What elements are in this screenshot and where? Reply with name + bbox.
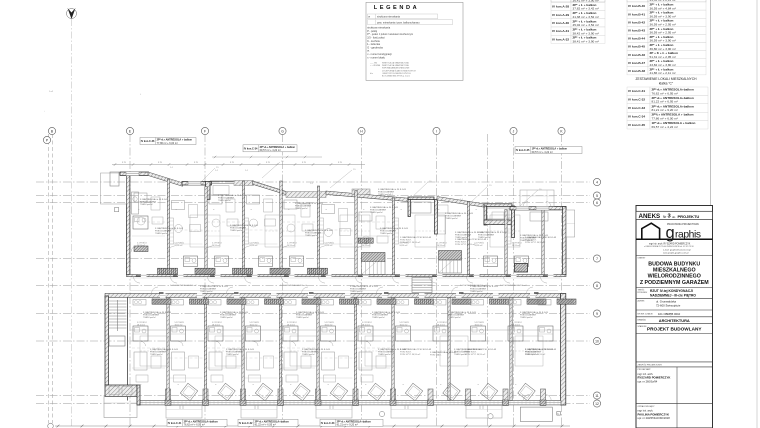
svg-text:IV kon.B-46: IV kon.B-46 [628,53,645,57]
svg-text:G - garderoba: G - garderoba [367,46,383,49]
svg-text:Z PODZIEMNYM GARAŻEM: Z PODZIEMNYM GARAŻEM [640,279,709,286]
svg-text:1.4: 1.4 [245,170,248,172]
svg-text:IV kon.B-41: IV kon.B-41 [628,12,645,16]
svg-text:2%: 2% [216,167,219,169]
svg-text:BRANŻA: BRANŻA [638,319,647,322]
svg-text:IV kon.A-32: IV kon.A-32 [552,37,569,41]
svg-text:18,11 m2: 18,11 m2 [287,324,295,326]
svg-text:37,82 m² + 3,42 m²: 37,82 m² + 3,42 m² [573,7,599,11]
svg-text:TRAWI pod/al: TRAWI pod/al [296,316,309,319]
svg-text:18,11 m2: 18,11 m2 [400,324,408,326]
svg-text:18,11 m2: 18,11 m2 [437,324,445,326]
svg-text:I NIEKTÓRYCH NIEWIDOCZNYCH: I NIEKTÓRYCH NIEWIDOCZNYCH [382,72,411,75]
svg-text:1.4: 1.4 [390,194,393,196]
svg-text:LEGENDA: LEGENDA [374,5,420,11]
svg-text:24,53 m2: 24,53 m2 [212,245,220,247]
svg-text:ul. BIELKOWSKA 29 72-600 ŚWINO: ul. BIELKOWSKA 29 72-600 ŚWINOUJŚCIE tel… [644,245,694,248]
svg-text:g: g [666,224,675,242]
svg-text:WENTYLACJA GRAWITACYJNA: WENTYLACJA GRAWITACYJNA [382,64,409,67]
svg-text:OBIEKT: OBIEKT [638,258,647,260]
svg-text:77,86 m² + 6,00 m²: 77,86 m² + 6,00 m² [157,142,178,145]
svg-text:ZESTAWIENIE LOKALI MIESZKALN: ZESTAWIENIE LOKALI MIESZKALNYCH [635,77,697,81]
svg-text:24,53 m2: 24,53 m2 [362,245,370,247]
svg-text:1.1 ANTRESOLA LIT. W. 36 S.1-0: 1.1 ANTRESOLA LIT. W. 36 S.1-03 [400,348,432,351]
svg-text:24,53 m2: 24,53 m2 [325,245,333,247]
svg-text:81,22 m² + 6,95 m²: 81,22 m² + 6,95 m² [255,424,276,427]
svg-text:1.1 ANTRESOLA LIT. W. 36 S.1-0: 1.1 ANTRESOLA LIT. W. 36 S.1-03 [400,236,432,239]
svg-text:TRAWI pod/al: TRAWI pod/al [370,211,383,214]
svg-text:IV kon.C-36: IV kon.C-36 [141,140,155,143]
svg-text:2%: 2% [489,185,492,187]
svg-text:77,86 m² + 6,00 m²: 77,86 m² + 6,00 m² [652,117,678,121]
svg-text:raphis: raphis [675,230,701,241]
svg-text:24,53 m2: 24,53 m2 [475,245,483,247]
svg-text:5.02 KOMUNIKACJA 28.6 m2: 5.02 KOMUNIKACJA 28.6 m2 [170,284,197,287]
svg-text:18,11 m2: 18,11 m2 [175,324,183,326]
svg-text:POW. UŻYT. 36,59 m2: POW. UŻYT. 36,59 m2 [400,241,421,244]
svg-text:TRAWI pod/al: TRAWI pod/al [218,199,231,202]
svg-text:POW. UŻYT. 36,59 m2: POW. UŻYT. 36,59 m2 [525,353,546,356]
svg-text:NADZIEMNEJ - III-cie PIĘTRO: NADZIEMNEJ - III-cie PIĘTRO [650,294,696,298]
svg-text:TRAWI pod/al: TRAWI pod/al [470,290,483,293]
svg-text:IV kon.C-34: IV kon.C-34 [628,114,645,118]
svg-text:1.1 ANTRESOLA LIT. W. 36 S.1-0: 1.1 ANTRESOLA LIT. W. 36 S.1-03 [525,348,557,351]
svg-text:2%: 2% [539,189,542,191]
svg-text:BLOCZKAMI MULTIPOR gr. 5,5cm: BLOCZKAMI MULTIPOR gr. 5,5cm [382,75,410,78]
svg-text:9: 9 [596,312,598,316]
svg-text:41,86 m² + 2,11 m²: 41,86 m² + 2,11 m² [650,71,676,75]
svg-text:38,41 m² + 3,90 m²: 38,41 m² + 3,90 m² [573,40,599,44]
svg-text:1.1 ANTRESOLA LIT. W. 36 S.1-0: 1.1 ANTRESOLA LIT. W. 36 S.1-03 [465,348,497,351]
svg-text:F: F [204,129,206,133]
svg-text:TRAWI pod/al: TRAWI pod/al [445,217,458,220]
svg-text:TRAWI pod/al: TRAWI pod/al [520,316,533,319]
svg-text:18,11 m2: 18,11 m2 [475,324,483,326]
svg-text:24,53 m2: 24,53 m2 [287,245,295,247]
svg-text:76,62 m² + 6,95 m²: 76,62 m² + 6,95 m² [652,91,678,95]
svg-text:ANEKS: ANEKS [639,213,661,220]
svg-text:WIELORODZINNEGO: WIELORODZINNEGO [648,274,701,280]
svg-text:TRAWI pod/al: TRAWI pod/al [143,316,156,319]
svg-text:2%: 2% [353,169,356,171]
svg-text:struktura mieszkania: struktura mieszkania [377,16,401,19]
svg-text:pow. mieszkania i pow. balkonu: pow. mieszkania i pow. balkonu/tarasu [377,21,420,24]
svg-text:2%: 2% [429,181,432,183]
svg-text:ARCHITEKTURA: ARCHITEKTURA [659,318,690,323]
svg-text:TRAWI pod/al: TRAWI pod/al [448,316,461,319]
svg-text:IV kon.B-47: IV kon.B-47 [628,61,645,65]
svg-text:www.projekt-graphis.com.pl: www.projekt-graphis.com.pl [663,252,689,255]
svg-text:IV kon.C-34: IV kon.C-34 [244,147,258,150]
svg-text:24,53 m2: 24,53 m2 [175,245,183,247]
svg-text:5.02 KOMUNIKACJA 28.6 m2: 5.02 KOMUNIKACJA 28.6 m2 [280,284,307,287]
svg-text:18,11 m2: 18,11 m2 [512,324,520,326]
svg-text:5.02 KOMUNIKACJA 28.6 m2: 5.02 KOMUNIKACJA 28.6 m2 [500,284,527,287]
svg-text:24,53 m2: 24,53 m2 [512,245,520,247]
svg-text:1.4: 1.4 [170,167,173,169]
svg-text:2%: 2% [281,161,284,163]
svg-text:PROJEKTANT: PROJEKTANT [638,368,652,371]
svg-text:12: 12 [595,402,599,406]
svg-text:41,38 m² + 3,52 m²: 41,38 m² + 3,52 m² [573,15,599,19]
svg-text:klatka "C": klatka "C" [659,82,674,86]
svg-text:IV kon.C-33: IV kon.C-33 [628,106,645,110]
svg-text:24,53 m2: 24,53 m2 [137,245,145,247]
svg-text:1 m²: 1 m² [49,90,53,93]
svg-text:PROJEKT BUDOWLANY: PROJEKT BUDOWLANY [647,327,702,332]
svg-text:TRAWI pod/al: TRAWI pod/al [220,316,233,319]
svg-text:TRAWI pod/al: TRAWI pod/al [372,316,385,319]
svg-text:24,53 m2: 24,53 m2 [400,245,408,247]
svg-text:upr. nr 260/Sz/94: upr. nr 260/Sz/94 [638,380,658,384]
svg-text:TRAWI pod/al: TRAWI pod/al [305,234,318,237]
svg-text:⊗ =: ⊗ = [370,72,373,75]
svg-text:8: 8 [596,284,598,288]
svg-text:mgr inż. arch. RYSZARD POMIE: mgr inż. arch. RYSZARD POMIERCZYK [649,242,691,245]
svg-text:STADIUM: STADIUM [638,325,647,328]
svg-text:69,57 m² + 4,22 m²: 69,57 m² + 4,22 m² [652,125,678,129]
svg-text:18,11 m2: 18,11 m2 [250,324,258,326]
svg-text:24,53 m2: 24,53 m2 [250,245,258,247]
svg-text:TRAWI pod/al: TRAWI pod/al [378,193,391,196]
svg-text:w: w [368,16,370,19]
svg-text:x - numer lokalu: x - numer lokalu [367,56,385,59]
svg-text:72-600 Świnoujście: 72-600 Świnoujście [656,303,681,308]
svg-text:IV kon.B-45: IV kon.B-45 [628,45,645,49]
svg-text:TRAWI pod/al: TRAWI pod/al [140,203,153,206]
svg-text:e-mail: graphis@uznam.net.pl: e-mail: graphis@uznam.net.pl [663,249,691,252]
svg-text:TRAWI pod/al: TRAWI pod/al [378,353,391,356]
svg-text:IV kon.C-32: IV kon.C-32 [628,98,645,102]
svg-text:DOCIEPLENIA ŚCIAN KONTAKTOWY: DOCIEPLENIA ŚCIAN KONTAKTOWYCH [382,69,416,72]
svg-text:upr. nr 23/ZPOIA/OKK/2018: upr. nr 23/ZPOIA/OKK/2018 [638,416,671,420]
svg-text:POW. CAŁK.: POW. CAŁK. [430,354,442,357]
svg-text:do: do [672,215,676,219]
svg-text:1.1 ANTRESOLA LIT. W. 36 S.1-0: 1.1 ANTRESOLA LIT. W. 36 S.1-03 [525,236,557,239]
svg-text:11: 11 [595,394,599,398]
svg-text:IV kon.A-30: IV kon.A-30 [552,21,569,25]
svg-text:IV kon.C-31: IV kon.C-31 [628,89,645,93]
svg-text:IV kon.C-35: IV kon.C-35 [628,123,645,127]
svg-text:PROJEKTU: PROJEKTU [678,214,700,219]
svg-text:IV kon.B-40: IV kon.B-40 [628,4,645,8]
svg-text:◦: ◦ [44,110,45,113]
svg-text:TRAWI pod/al: TRAWI pod/al [155,232,168,235]
svg-text:IV kon.B-43: IV kon.B-43 [628,29,645,33]
svg-text:I: I [436,129,437,133]
svg-text:POW. UŻYT. 36,59 m2: POW. UŻYT. 36,59 m2 [400,353,421,356]
svg-text:81,21 m² + 9,20 m²: 81,21 m² + 9,20 m² [652,108,678,112]
svg-text:TRAWI pod/al: TRAWI pod/al [230,229,243,232]
svg-text:IV kon.B-42: IV kon.B-42 [628,20,645,24]
svg-text:24,53 m2: 24,53 m2 [437,245,445,247]
svg-text:4: 4 [596,180,598,184]
svg-text:G: G [281,129,284,133]
svg-text:6: 6 [596,201,598,205]
svg-text:5: 5 [596,194,598,198]
svg-text:IV kon.A-28: IV kon.A-28 [552,5,569,9]
svg-text:NR EW. DZIAŁKI: NR EW. DZIAŁKI [638,313,654,316]
svg-text:10: 10 [595,339,599,343]
svg-text:1.4: 1.4 [460,199,463,201]
svg-text:IV kon.C-35: IV kon.C-35 [516,149,530,152]
svg-text:81,21 m² + 9,20 m²: 81,21 m² + 9,20 m² [337,424,358,427]
svg-text:1.4: 1.4 [310,183,313,185]
svg-text:IV kon.C-31: IV kon.C-31 [168,422,182,425]
svg-text:-- -- WG/WM: -- -- WG/WM [370,65,381,67]
svg-text:TRAWI pod/al: TRAWI pod/al [150,353,163,356]
svg-text:MIESZKALNEGO: MIESZKALNEGO [653,268,696,274]
svg-text:18,11 m2: 18,11 m2 [325,324,333,326]
svg-text:45,02 m² + 3,52 m²: 45,02 m² + 3,52 m² [573,23,599,27]
svg-text:7: 7 [596,257,598,261]
svg-text:TRAWI pod/al: TRAWI pod/al [302,353,315,356]
svg-text:101 OBRĘB 0010: 101 OBRĘB 0010 [658,312,681,316]
svg-text:18,11 m2: 18,11 m2 [137,324,145,326]
svg-text:ZESPÓŁ PROJEKTOWY: ZESPÓŁ PROJEKTOWY [638,363,663,366]
svg-text:TRAWI pod/al: TRAWI pod/al [350,290,363,293]
svg-text:TRAWI pod/al: TRAWI pod/al [226,353,239,356]
svg-text:TRAWI pod/al: TRAWI pod/al [200,290,213,293]
svg-text:PAULINA POMIERCZYK: PAULINA POMIERCZYK [638,412,670,416]
svg-text:1.4: 1.4 [215,170,218,172]
svg-text:76,62 m² + 6,95 m²: 76,62 m² + 6,95 m² [184,424,205,427]
svg-text:69,57 m² + 4,22 m²: 69,57 m² + 4,22 m² [532,151,553,154]
svg-text:RYSUNKU: RYSUNKU [638,292,648,294]
svg-text:TRAWI pod/al: TRAWI pod/al [380,232,393,235]
svg-text:TRAWI pod/al: TRAWI pod/al [295,207,308,210]
svg-text:81,22 m² + 6,95 m²: 81,22 m² + 6,95 m² [652,100,678,104]
svg-text:1.1 ANTRESOLA LIT. W. 36 S.1-0: 1.1 ANTRESOLA LIT. W. 36 S.1-03 [455,238,487,241]
svg-text:IV kon.A-29: IV kon.A-29 [552,13,569,17]
svg-text:38,42 m² + 3,90 m²: 38,42 m² + 3,90 m² [573,31,599,35]
svg-text:ADRES: ADRES [638,300,646,303]
svg-text:POW. UŻYT. 36,59 m2: POW. UŻYT. 36,59 m2 [455,243,476,246]
svg-text:IV kon.A-31: IV kon.A-31 [552,29,569,33]
svg-text:18,11 m2: 18,11 m2 [212,324,220,326]
svg-text:POW. UŻYT. 36,59 m2: POW. UŻYT. 36,59 m2 [465,353,486,356]
svg-text:WSPOMAGANA MECHANICZNIE: WSPOMAGANA MECHANICZNIE [382,67,410,70]
svg-text:69,57 m² + 4,22 m²: 69,57 m² + 4,22 m² [260,149,281,152]
svg-text:BUDOWA BUDYNKU: BUDOWA BUDYNKU [648,262,700,268]
svg-text:WENTYLACJA GRAWITACYJNA: WENTYLACJA GRAWITACYJNA [382,62,409,65]
svg-text:IV kon.C-33: IV kon.C-33 [321,422,335,425]
svg-text:RZUT IV-tej KONDYGNACJI: RZUT IV-tej KONDYGNACJI [650,289,693,293]
svg-text:POW. UŻYT. 36,59 m2: POW. UŻYT. 36,59 m2 [525,241,546,244]
svg-text:RYSZARD POMIERCZYK: RYSZARD POMIERCZYK [638,376,671,380]
svg-text:IV kon.B-48: IV kon.B-48 [628,69,645,73]
svg-text:18,11 m2: 18,11 m2 [362,324,370,326]
svg-text:IV kon.B-44: IV kon.B-44 [628,37,645,41]
svg-text:IV kon.C-32: IV kon.C-32 [239,422,253,425]
svg-text:OPRACOWUJĄCY: OPRACOWUJĄCY [638,405,656,408]
